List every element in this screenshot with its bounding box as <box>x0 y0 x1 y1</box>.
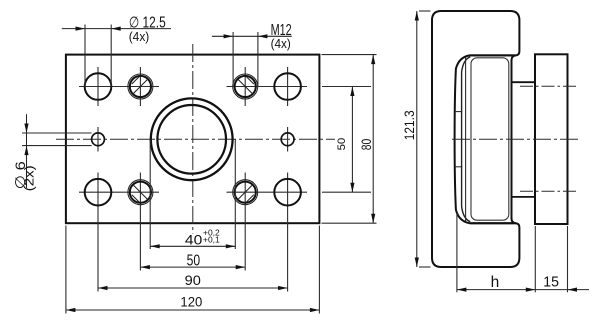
svg-text:50: 50 <box>187 252 201 269</box>
dimension h (side view) <box>457 213 589 292</box>
dimension 50 bottom (M12 columns) <box>140 252 245 269</box>
thread M12 top-right <box>233 74 258 99</box>
hole axis vertical bottom-left plain (extends to 90 dim) <box>97 173 99 292</box>
side view notch step bottom <box>471 222 515 224</box>
hole centerline row1 right <box>227 86 308 88</box>
svg-text:40: 40 <box>185 231 203 247</box>
dimension 50 vertical (hole rows) <box>322 87 371 193</box>
thread M12 bottom-right <box>233 180 258 205</box>
side view insert right edge <box>512 55 516 223</box>
centerline horizontal (plate axis) <box>56 138 335 140</box>
dimension 120 bottom (plate width) <box>66 226 320 314</box>
side view insert (thin rounded rect) <box>471 58 509 220</box>
hole axis vertical bottom-right plain (extends to 90 dim) <box>287 173 289 292</box>
side view flange plate <box>535 54 568 224</box>
dimension 90 bottom (plain hole columns) <box>98 272 288 290</box>
hole Ø6 right <box>281 133 294 146</box>
hole Ø12.5 bottom-right <box>274 179 301 206</box>
hole Ø6 left <box>92 133 105 146</box>
thread M12 bottom-left <box>128 180 153 205</box>
dimension 121.3 (side view height) <box>401 11 431 267</box>
svg-text:h: h <box>491 274 500 291</box>
center bore inner circle <box>157 105 226 174</box>
svg-text:15: 15 <box>543 274 559 291</box>
svg-text:(4x): (4x) <box>129 29 150 44</box>
side view collet line thin <box>465 58 467 222</box>
dimension M12 (4x) <box>212 22 292 87</box>
dimension Ø12.5 (4x) <box>62 14 171 87</box>
side view spigot bottom edge <box>512 196 536 198</box>
side view spigot top edge <box>512 81 536 83</box>
side view row axis bottom (dash-dot) <box>520 190 576 192</box>
hole axis vertical bottom-right M12 (extends to 50 dim) <box>244 173 246 271</box>
svg-text:+0,1: +0,1 <box>203 235 220 244</box>
dimension 80 vertical (plate height) <box>322 55 377 224</box>
hole Ø12.5 top-left <box>85 73 112 100</box>
plate outline (front view) <box>66 55 320 224</box>
side view collet tick lower <box>455 166 462 168</box>
hole axis vertical bottom-left M12 (extends to 50 dim) <box>139 173 141 271</box>
hole centerline row2 left <box>79 191 159 193</box>
side view collet tick upper <box>455 111 462 113</box>
centerline vertical (plate axis) <box>192 44 194 234</box>
hole axis vertical top-right M12 <box>244 67 246 106</box>
hole axis vertical top-left plain <box>97 67 99 106</box>
dimension Ø6 (2x) <box>12 114 92 191</box>
svg-text:(2x): (2x) <box>22 165 37 191</box>
hole centerline row2 right <box>227 191 308 193</box>
hole axis vertical top-right plain <box>287 67 289 106</box>
dimension 15 (flange thickness) <box>543 226 577 292</box>
thread M12 top-left <box>128 74 153 99</box>
hole Ø12.5 bottom-left <box>85 179 112 206</box>
dimension 40 +0.2/+0.1 (center bore) <box>150 139 235 249</box>
svg-text:121.3: 121.3 <box>401 110 417 140</box>
svg-text:50: 50 <box>336 138 348 151</box>
hole axis vertical small hole right <box>287 127 289 152</box>
hole axis vertical top-left M12 <box>139 67 141 106</box>
svg-text:80: 80 <box>359 139 374 151</box>
svg-text:(4x): (4x) <box>271 36 291 51</box>
hole axis vertical small hole left <box>97 127 99 152</box>
hole centerline row1 left <box>79 86 159 88</box>
side view row axis top (dash-dot) <box>520 85 576 87</box>
svg-text:120: 120 <box>180 294 202 310</box>
hole Ø12.5 top-right <box>274 73 301 100</box>
svg-text:90: 90 <box>185 272 201 288</box>
side view center axis (dash-dot) <box>452 138 578 140</box>
side view body outline <box>432 11 519 267</box>
side view notch step top <box>471 54 515 56</box>
side view collet line medium <box>462 57 471 222</box>
center bore outer circle <box>151 98 233 180</box>
